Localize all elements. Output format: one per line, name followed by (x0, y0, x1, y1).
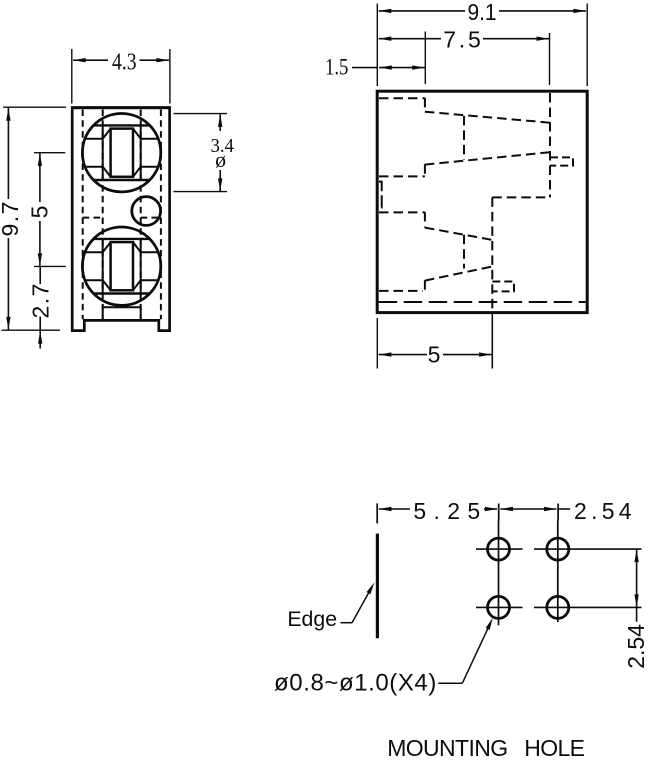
mounting view: hole centerline column left (498, 521, 500, 626)
svg-text:2.7: 2.7 (27, 282, 53, 318)
svg-text:MOUNTING HOLE: MOUNTING HOLE (387, 735, 585, 761)
svg-text:9.7: 9.7 (0, 200, 23, 236)
mounting view: hole centerline row top (476, 548, 642, 550)
mounting hole top-left (488, 538, 510, 560)
front view: channel bottom line (103, 306, 141, 308)
side view: LED2 channel bottom line (dashed) (379, 290, 423, 292)
side view: LED2 channel lower step (dashed) (424, 280, 426, 291)
side view: LED2 lens front line (dashed) (463, 235, 465, 269)
svg-text:2.54: 2.54 (623, 624, 649, 669)
svg-text:5: 5 (428, 341, 442, 367)
side view: LED2 channel step (dashed) (424, 212, 426, 228)
front view: LED2 lens circle and socket detail (82, 227, 160, 305)
side view: body rectangle (377, 91, 587, 312)
side view: LED1 lead slot bracket (dashed) (550, 157, 573, 165)
svg-text:ø: ø (215, 147, 226, 172)
mounting hole bottom-left (488, 596, 510, 618)
mounting view: hole column tick left (498, 504, 500, 521)
front view: body outline with bottom feet (72, 108, 169, 331)
dimension 2.54 (right) line with arrows (634, 549, 638, 622)
side view: LED2 channel top line (dashed) (379, 211, 425, 213)
side view: hidden base line (long dashed) (379, 301, 586, 303)
dimension 2.54 (top) line with arrows (500, 507, 570, 511)
front view: hidden wall line left (dashed) (82, 110, 84, 320)
front view: hidden wall line right (dashed) (160, 110, 162, 320)
dimension 5.25 line with arrows (379, 507, 498, 511)
front view: slot wall right solid segments (140, 125, 142, 319)
side view: LED1 cone lower edge (dashed) (425, 152, 550, 164)
side view: LED1 channel lower step (dashed) (424, 164, 426, 177)
side view: right hidden wall upper (dashed) (549, 93, 551, 197)
dimension 9.7 line with arrows (6, 108, 10, 330)
side view: LED2 cone upper edge (dashed) (425, 228, 492, 240)
side view: left edge notch (dashed) (379, 182, 382, 208)
svg-text:1.5: 1.5 (325, 54, 349, 80)
mounting hole bottom-right (547, 596, 569, 618)
front view: inner slot wall left (dashed) (102, 110, 104, 320)
front view: body top edge (thick) (71, 106, 171, 109)
svg-text:9.1: 9.1 (467, 0, 496, 25)
side view: internal depth step line (dashed) (492, 196, 550, 198)
dimension 5 line with arrows (38, 153, 42, 266)
dimension 1.5 leader and arrows (352, 65, 425, 69)
side view: LED1 channel bottom line (dashed) (379, 175, 425, 177)
svg-text:2.54: 2.54 (574, 498, 632, 524)
side view: inner wall vertical (dashed) (491, 197, 493, 311)
side view: LED1 channel top line (dashed) (379, 97, 425, 99)
dimension 1.5 extension line (424, 32, 426, 85)
mounting view: hole column tick right (557, 504, 559, 521)
front view: LED1 lens circle and socket detail (82, 114, 160, 192)
dimension 3.4 extension lines (174, 114, 228, 192)
svg-text:5: 5 (27, 204, 53, 218)
mounting hole top-right (547, 538, 569, 560)
dimension 4.3 line with arrows (73, 58, 169, 62)
mounting view: hole centerline row bottom (476, 606, 642, 608)
front view: slot wall left solid segments (102, 125, 104, 319)
dimension 9.1 line with arrows (379, 9, 586, 13)
dimension 5 (side view) line with arrows (379, 352, 492, 356)
svg-text:4.3: 4.3 (112, 49, 137, 75)
svg-text:ø0.8~ø1.0(X4): ø0.8~ø1.0(X4) (274, 669, 436, 696)
dimension 7.5 extension line (549, 33, 551, 85)
svg-text:7.5: 7.5 (443, 27, 481, 53)
label hole size leader with arrow (438, 617, 495, 684)
dimension 7.5 line with arrows (379, 37, 549, 41)
dimension 5 tick lines (34, 153, 66, 267)
front view: small index hole circle (132, 197, 161, 226)
dimension 9.7 extension lines (2, 107, 67, 330)
dimension 3.4 line with arrows (218, 114, 222, 191)
dimension 5 (side view) extension lines (377, 314, 492, 369)
mounting view: hole centerline column right (557, 521, 559, 623)
side view: LED1 channel step (dashed) (424, 98, 426, 112)
mounting view: PCB edge line (thick) (376, 534, 379, 639)
svg-text:5.25: 5.25 (413, 498, 480, 524)
front view: hidden partition line (dashed, mid-height) (83, 217, 161, 219)
mounting view: edge reference tick (376, 503, 378, 523)
side view: LED1 lens front line (dashed) (463, 116, 465, 160)
label Edge leader with arrow (341, 581, 377, 622)
side view: LED2 cone lower edge (dashed) (425, 267, 492, 281)
side view: LED2 lead slot bracket (dashed) (492, 282, 514, 292)
svg-text:Edge: Edge (287, 607, 337, 631)
front view: inner slot wall right (dashed) (140, 110, 142, 320)
dimension 2.7 line (38, 266, 42, 348)
dimension 9.1 extension lines (377, 4, 587, 87)
dimension 4.3 (body width) extension lines (72, 49, 170, 104)
side view: LED1 cone upper edge (dashed) (425, 112, 550, 123)
